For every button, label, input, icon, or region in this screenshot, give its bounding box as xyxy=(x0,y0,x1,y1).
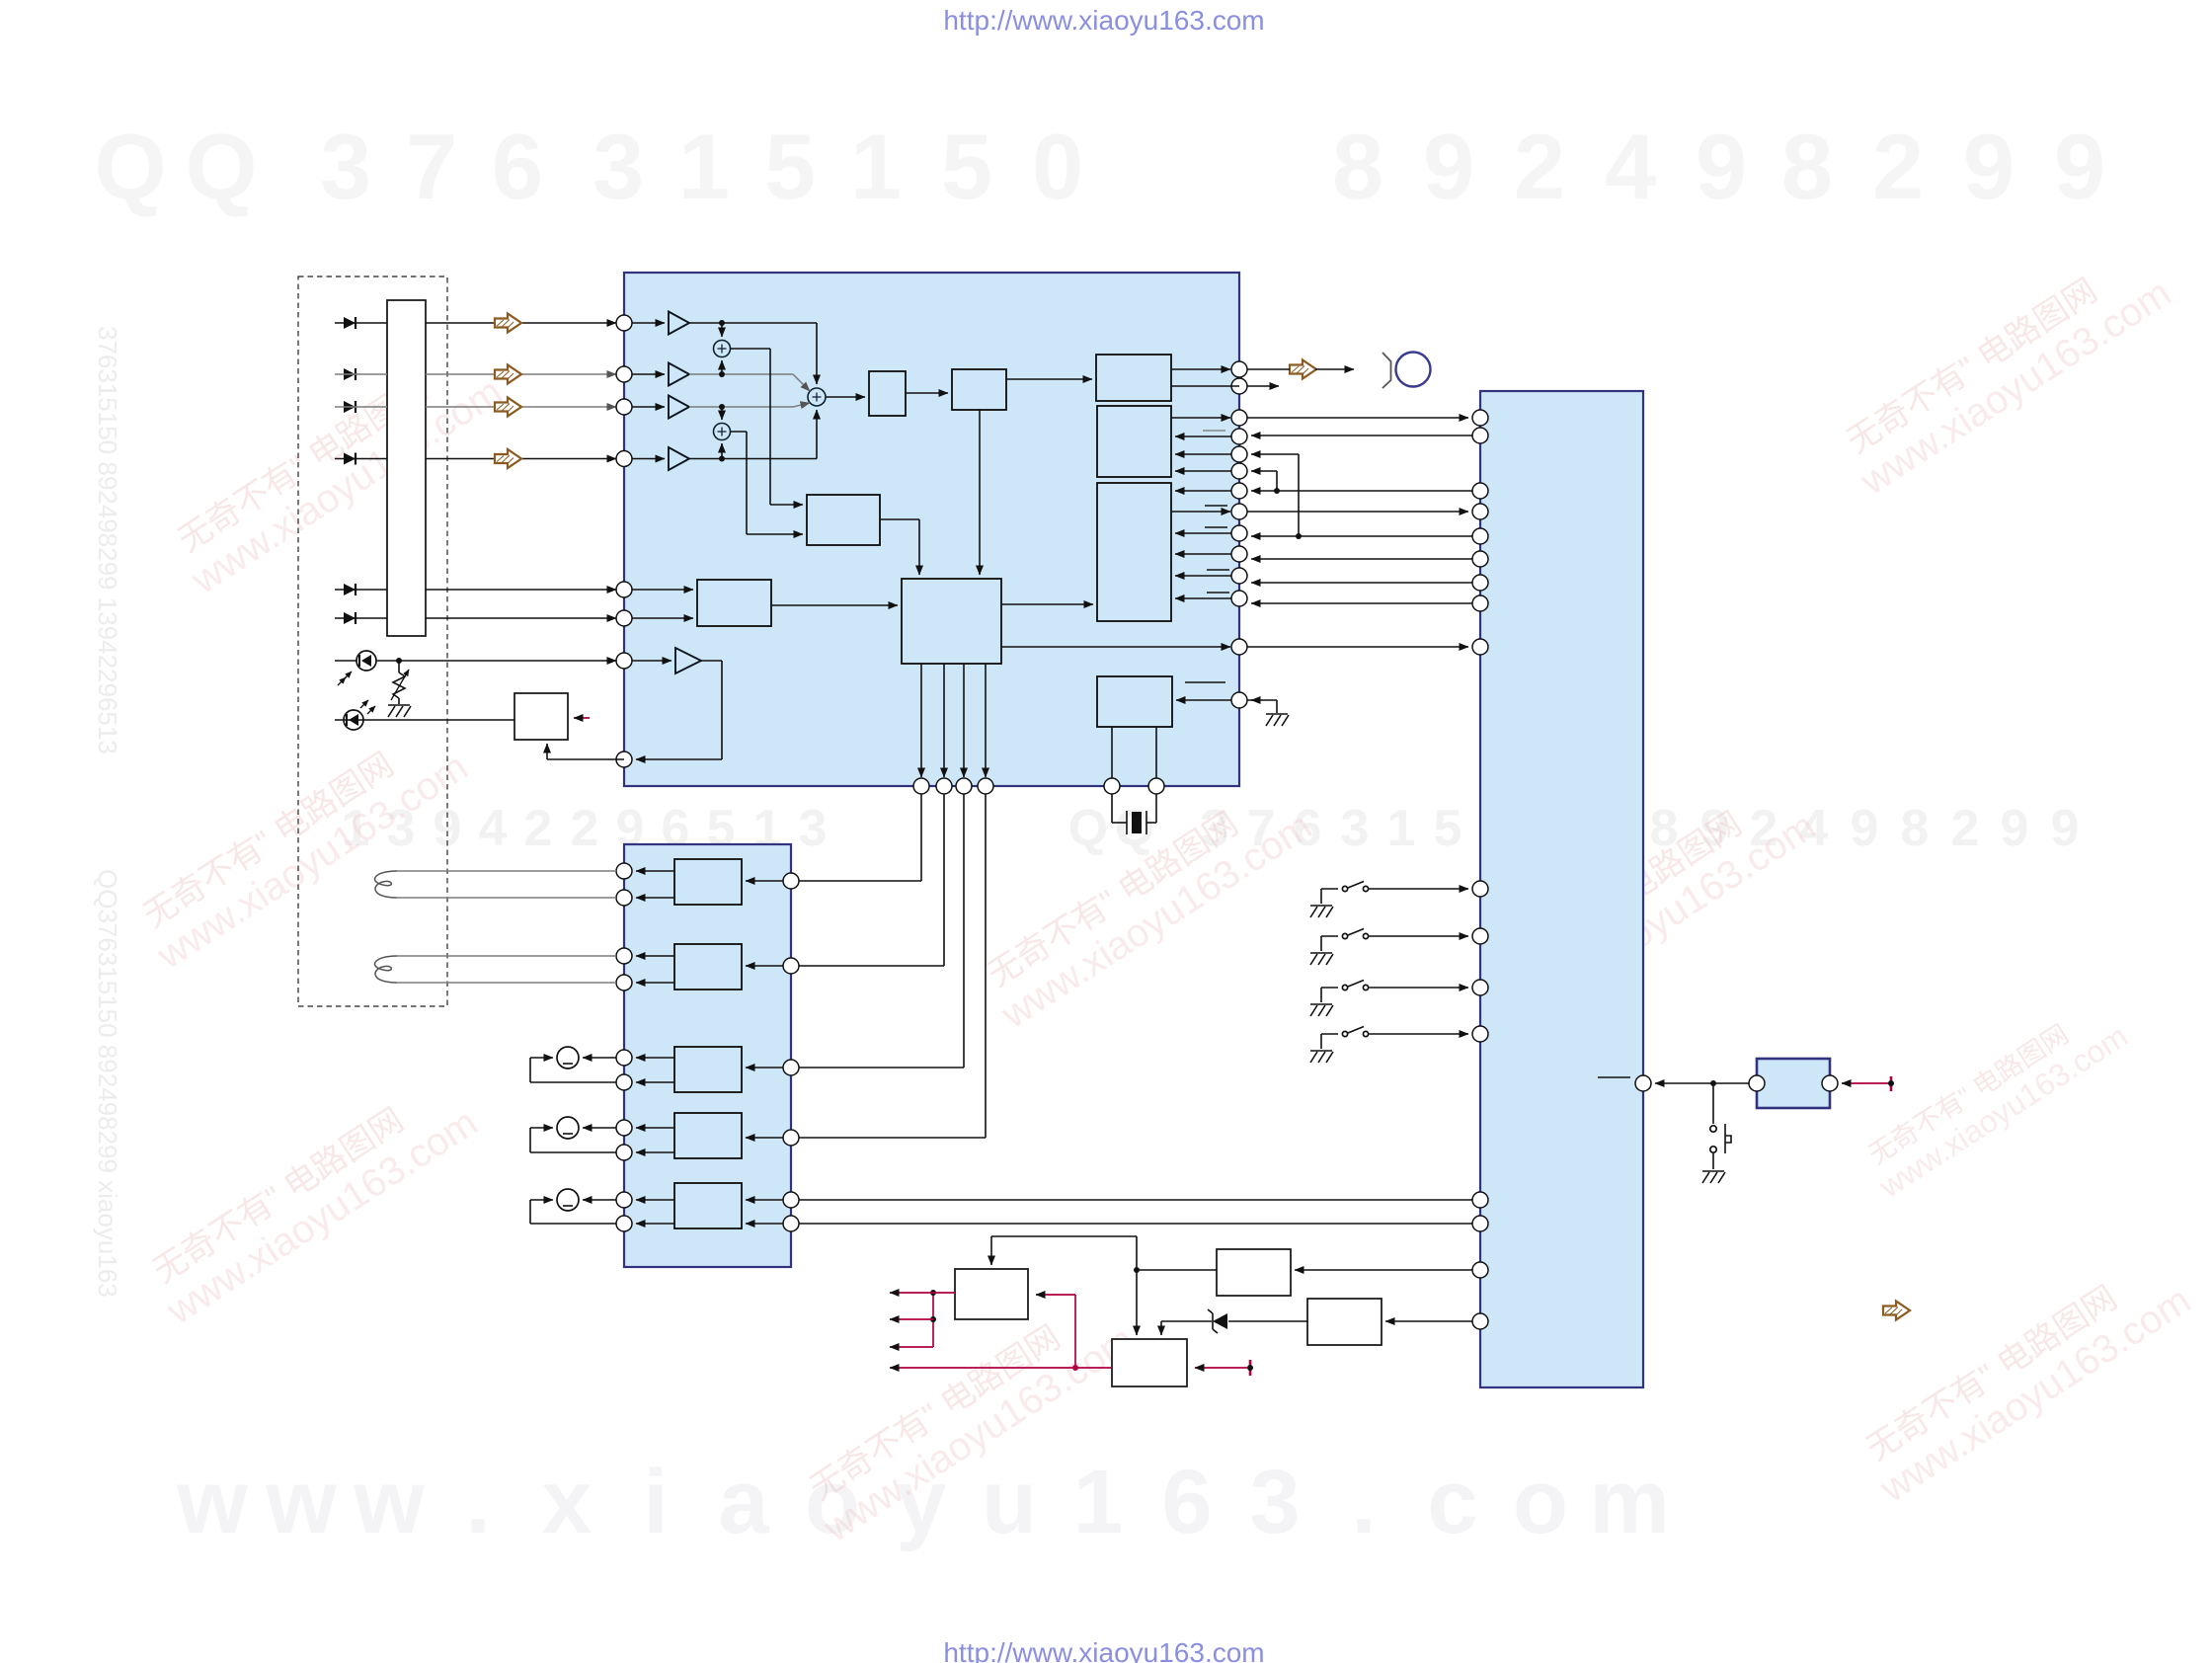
wire bus MCK xyxy=(1247,417,1468,419)
svg-text:5: 5 xyxy=(764,115,816,218)
watermark middle digits xyxy=(342,800,2080,857)
svg-text:9: 9 xyxy=(1851,800,1879,857)
ground SW2 xyxy=(1310,953,1333,965)
wire D4 to zener xyxy=(1228,1320,1307,1322)
U2 pin 4a xyxy=(616,1120,632,1136)
svg-text:QQ376315150 892498299 xiaoyu: QQ376315150 892498299 xiaoyu163 xyxy=(93,869,122,1298)
sled driver block xyxy=(674,1113,742,1158)
wire xtal gnd pin xyxy=(1247,700,1277,713)
photodiode PD-C xyxy=(344,401,355,413)
wire AGC to EQ xyxy=(906,392,948,394)
wire FOC drive net xyxy=(799,794,921,881)
wire branch to pin477 xyxy=(1251,471,1277,491)
U1 right pin y391 xyxy=(1231,378,1247,394)
U1 right pin y518 xyxy=(1231,504,1247,519)
ground SW3 xyxy=(1310,1004,1333,1016)
wire E1 out red xyxy=(1036,1295,1075,1368)
svg-text:Q: Q xyxy=(94,115,166,218)
U1 pin F xyxy=(616,610,632,626)
wire PD-F to U1 pin xyxy=(426,617,616,619)
IC U3 system controller body xyxy=(1480,391,1643,1387)
wire bus d543 xyxy=(1251,533,1472,539)
label overline XTAL xyxy=(1185,681,1225,683)
label overline RESET xyxy=(1598,1076,1630,1078)
U1 pin D xyxy=(616,451,632,467)
red stub arrow 3 xyxy=(890,1346,933,1348)
wire servo to C3 block xyxy=(1001,603,1093,605)
wire drv3 in xyxy=(746,1067,791,1069)
EF amp block xyxy=(697,580,771,626)
svg-text:5: 5 xyxy=(941,115,992,218)
label overline 4 xyxy=(1207,569,1229,571)
wire driver5 out a xyxy=(636,1199,674,1201)
sled motor M2 xyxy=(557,1117,579,1139)
watermark diagonal 8 xyxy=(1831,239,2178,505)
wire D1 to junction xyxy=(1134,1267,1217,1273)
wire osc leg 1 xyxy=(1111,727,1113,778)
U3 pin y655 xyxy=(1472,639,1488,655)
U3 pin y1286 xyxy=(1472,1262,1488,1278)
svg-text:a: a xyxy=(718,1452,769,1552)
C3 servo interface block xyxy=(1097,483,1171,621)
svg-text:Q: Q xyxy=(185,115,257,218)
B+ red feed to APC xyxy=(574,717,590,719)
U3 pin SW4 xyxy=(1472,1026,1488,1042)
svg-text:www.xiaoyu163.com: www.xiaoyu163.com xyxy=(1872,1018,2134,1206)
wire U3 to D1 xyxy=(1295,1269,1472,1271)
U2 pin 5b xyxy=(616,1216,632,1231)
DAC audio block xyxy=(1096,355,1171,401)
ground VR1 xyxy=(388,705,411,717)
wire D to S3 bottom xyxy=(816,410,818,459)
wire servo to pin FOK xyxy=(1001,646,1230,648)
spindle driver block xyxy=(674,1047,742,1092)
U1 right pin y477 xyxy=(1231,463,1247,479)
U1 right pin y374 xyxy=(1231,361,1247,377)
wire driver3 out b xyxy=(636,1081,674,1083)
svg-text:c: c xyxy=(1427,1452,1477,1552)
svg-text:6: 6 xyxy=(1161,1452,1212,1552)
wire monitor amp to APC pin xyxy=(636,661,722,759)
wire driver2 out b xyxy=(636,982,674,984)
variable resistor VR1 xyxy=(391,661,409,704)
wire pin to C3 in 4 xyxy=(1175,575,1231,577)
red stub arrow 1 xyxy=(890,1292,933,1294)
laser diode LD1 xyxy=(344,700,375,730)
U1 bottom pin drive 1 xyxy=(913,778,929,794)
D2 regulator block xyxy=(1112,1339,1187,1386)
oscillator block xyxy=(1097,676,1172,727)
ground SW4 xyxy=(1310,1051,1333,1063)
wire driver3 out a xyxy=(636,1057,674,1059)
junction amp A out xyxy=(689,320,817,326)
wire servo drive out 4 xyxy=(985,664,987,777)
connector CN1 flex rectangle xyxy=(387,300,426,636)
svg-text:w: w xyxy=(176,1452,248,1552)
wire PD-D to U1 pin xyxy=(426,458,616,460)
wire driver4 out b xyxy=(636,1151,674,1153)
watermark diagonal 4 xyxy=(972,772,1319,1038)
wire monitor PD to U1 xyxy=(335,660,616,662)
svg-text:3: 3 xyxy=(320,115,371,218)
watermark diagonal 6 xyxy=(1475,772,1823,1038)
label overline 5 xyxy=(1207,592,1229,594)
wire tracking coil a xyxy=(397,955,616,957)
wire sled upper xyxy=(583,1127,616,1129)
monitor amp xyxy=(632,648,701,673)
wire PD-A anode xyxy=(335,322,387,324)
svg-text:9: 9 xyxy=(1963,115,2014,218)
svg-text:9: 9 xyxy=(434,800,462,857)
svg-text:8: 8 xyxy=(1332,115,1383,218)
svg-text:9: 9 xyxy=(2001,800,2029,857)
crystal X1 xyxy=(1112,794,1156,834)
ground xtal pin xyxy=(1266,714,1289,726)
U1 right pin y561 xyxy=(1231,546,1247,562)
wire loading upper xyxy=(583,1199,616,1201)
switch SW1 xyxy=(1321,882,1468,905)
loading driver block xyxy=(674,1183,742,1228)
U1 pin C xyxy=(616,399,632,415)
svg-text:Q: Q xyxy=(1068,800,1108,857)
watermark left margin text xyxy=(93,326,122,1298)
svg-text:o: o xyxy=(1513,1452,1568,1552)
watermark diagonal 9 xyxy=(1856,992,2134,1206)
wire driver1 out b xyxy=(636,897,674,899)
photodiode PD-A xyxy=(344,317,355,329)
wire LD to APC box xyxy=(335,719,514,721)
wire junction up to E1 xyxy=(991,1236,1137,1270)
wire EF to servo xyxy=(771,604,898,606)
summer S2 xyxy=(714,407,731,459)
photodiode PD-E xyxy=(344,584,355,595)
U2 right pin 2 xyxy=(783,958,799,974)
photodiode PD-F xyxy=(344,612,355,624)
U2 pin 2b xyxy=(616,975,632,990)
wire spindle lower xyxy=(530,1058,616,1082)
D4 driver block xyxy=(1307,1299,1382,1345)
wire pin to C3 in 2 xyxy=(1175,532,1231,534)
wire pin to C3 in 1 xyxy=(1175,490,1231,492)
monitor photodiode PD-M xyxy=(338,651,376,685)
svg-text:0: 0 xyxy=(1032,115,1083,218)
wire PD-D anode xyxy=(335,458,387,460)
U1 right pin y655 xyxy=(1231,639,1247,655)
wire pin to C2 in 3 xyxy=(1175,470,1231,472)
wire TRK drive net xyxy=(799,794,944,966)
wire driver5 out b xyxy=(636,1223,674,1225)
wire branch to pin460 xyxy=(1251,454,1299,536)
wire bus FOK xyxy=(1247,646,1468,648)
watermark top digits xyxy=(94,115,2105,218)
U3 reset pin xyxy=(1635,1075,1651,1091)
U3 pin y1338 xyxy=(1472,1313,1488,1329)
svg-text:4: 4 xyxy=(479,800,508,857)
svg-text:1: 1 xyxy=(850,115,902,218)
svg-text:8: 8 xyxy=(1901,800,1930,857)
wire S3 to AGC xyxy=(826,396,865,398)
RF amp block xyxy=(807,495,880,545)
svg-text:.: . xyxy=(465,1452,491,1552)
svg-text:www.xiaoyu163.com: www.xiaoyu163.com xyxy=(1872,1278,2199,1511)
U3 pin y611 xyxy=(1472,595,1488,611)
svg-text:9: 9 xyxy=(2054,115,2105,218)
wire PD-F anode xyxy=(335,617,387,619)
U3 pin SW1 xyxy=(1472,881,1488,897)
U1 pin A xyxy=(616,315,632,331)
label overline 3 xyxy=(1205,526,1227,528)
svg-text:9: 9 xyxy=(2051,800,2080,857)
wire bus d611 xyxy=(1251,602,1472,604)
headphone jack bracket xyxy=(1382,353,1391,388)
wire servo drive out 1 xyxy=(920,664,922,777)
switch SW4 xyxy=(1321,1027,1468,1050)
U1 right pin y583 xyxy=(1231,568,1247,584)
wire EQ to DAC block xyxy=(1006,378,1092,380)
U2 right pin 1 xyxy=(783,873,799,889)
focus driver block xyxy=(674,859,742,905)
wire EQ down to servo xyxy=(979,410,981,575)
optical pickup dashed enclosure xyxy=(298,277,447,1006)
APC block xyxy=(514,693,568,740)
signal flow arrow C xyxy=(495,398,521,417)
wire bus d497 xyxy=(1251,488,1472,494)
wire reset net xyxy=(1655,1080,1753,1086)
svg-text:4: 4 xyxy=(1605,115,1656,218)
U1 pin E xyxy=(616,582,632,597)
spindle motor M1 xyxy=(557,1047,579,1069)
wire U2 to U3 row1239 xyxy=(799,1223,1472,1225)
svg-text:www.xiaoyu163.com: www.xiaoyu163.com xyxy=(993,804,1320,1037)
wire drv2 in xyxy=(746,965,791,967)
wire C3 out SENS xyxy=(1171,511,1230,513)
wire bus SENS xyxy=(1247,511,1468,513)
wire HP pin to jack xyxy=(1247,368,1354,370)
watermark giant bottom text xyxy=(176,1452,1670,1552)
svg-text:m: m xyxy=(1589,1452,1670,1552)
svg-text:u: u xyxy=(982,1452,1037,1552)
wire xtal pin to osc xyxy=(1176,699,1231,701)
U3 pin y1215 xyxy=(1472,1192,1488,1208)
wire spindle upper xyxy=(583,1057,616,1059)
wire osc leg 2 xyxy=(1155,727,1157,778)
wire bus d441 xyxy=(1251,435,1472,436)
reset IC body xyxy=(1757,1059,1830,1108)
U1 right pin y606 xyxy=(1231,591,1247,606)
red rail junctions xyxy=(930,1290,936,1347)
focus coil xyxy=(375,871,397,898)
wire PD-A to U1 pin xyxy=(426,322,616,324)
svg-text:i: i xyxy=(643,1452,669,1552)
photodiode PD-D xyxy=(344,453,355,465)
wire PD-B anode xyxy=(335,373,387,375)
wire drv5 in a xyxy=(746,1199,791,1201)
svg-text:6: 6 xyxy=(492,115,543,218)
svg-text:376315150 892498299 13942296: 376315150 892498299 13942296513 xyxy=(93,326,122,754)
svg-text:3: 3 xyxy=(1341,800,1370,857)
U2 right pin 5b xyxy=(783,1216,799,1231)
U3 pin SW2 xyxy=(1472,928,1488,944)
wire junction down to D2 xyxy=(1136,1270,1138,1335)
U2 pin 1b xyxy=(616,890,632,906)
signal flow arrow bottom right xyxy=(1883,1302,1910,1320)
watermark diagonal 7 xyxy=(1851,1246,2198,1512)
red B+ to reset IC xyxy=(1842,1076,1894,1091)
junction monitor node xyxy=(396,658,402,664)
wire drv5 in b xyxy=(746,1223,791,1225)
svg-text:2: 2 xyxy=(571,800,599,857)
label overline 1 xyxy=(1203,430,1225,432)
wire drv4 in xyxy=(746,1137,791,1139)
wire sled lower xyxy=(530,1128,616,1152)
svg-text:2: 2 xyxy=(1872,115,1924,218)
U2 pin 3b xyxy=(616,1074,632,1090)
wire APC feedback from U1 pin xyxy=(547,744,624,759)
wire drv1 in xyxy=(746,880,791,882)
wire pin to C2 in 2 xyxy=(1175,453,1231,455)
watermark diagonal 3 xyxy=(137,1069,485,1334)
U1 bottom pin drive 3 xyxy=(956,778,972,794)
svg-text:http://www.xiaoyu163.com: http://www.xiaoyu163.com xyxy=(943,1637,1264,1663)
wire F to EF block xyxy=(632,617,693,619)
signal flow arrow B xyxy=(495,365,521,384)
wire focus coil a xyxy=(397,870,616,872)
U2 pin 3a xyxy=(616,1050,632,1066)
U3 pin y497 xyxy=(1472,483,1488,499)
tracking driver block xyxy=(674,944,742,990)
U3 pin y423 xyxy=(1472,410,1488,426)
tracking coil xyxy=(375,956,397,983)
svg-text:7: 7 xyxy=(406,115,457,218)
U3 pin y1239 xyxy=(1472,1216,1488,1231)
watermark diagonal 1 xyxy=(162,338,510,603)
AGC block xyxy=(869,371,906,416)
wire U2 to U3 row1215 xyxy=(799,1199,1472,1201)
wire S1 to RF block xyxy=(731,349,804,505)
U1 pin B xyxy=(616,366,632,382)
svg-text:.: . xyxy=(1351,1452,1377,1552)
wire pin to C2 in 1 xyxy=(1175,436,1231,437)
switch SW3 xyxy=(1321,981,1468,1003)
svg-text:8: 8 xyxy=(1781,115,1833,218)
wire S2 to RF block xyxy=(731,432,804,534)
svg-text:x: x xyxy=(541,1452,592,1552)
wire C diagonal to S3 xyxy=(793,403,810,407)
junction amp B out xyxy=(689,371,793,377)
wire DAC aux out xyxy=(1171,385,1239,387)
wire RF out down to servo xyxy=(880,519,919,575)
U1 right pin y423 xyxy=(1231,410,1247,426)
U1 pin APC out xyxy=(616,752,632,767)
U3 pin SW3 xyxy=(1472,980,1488,995)
U2 pin 4b xyxy=(616,1145,632,1160)
U2 pin 1a xyxy=(616,863,632,879)
amplifier D xyxy=(632,447,689,470)
svg-text:2: 2 xyxy=(1951,800,1980,857)
U3 pin y441 xyxy=(1472,428,1488,443)
signal flow arrow D xyxy=(495,449,521,468)
wire DAC to HP pin xyxy=(1171,368,1230,370)
wire bus d566 xyxy=(1251,558,1472,560)
U1 right pin y540 xyxy=(1231,525,1247,541)
switch SW2 xyxy=(1321,929,1468,952)
svg-text:1: 1 xyxy=(678,115,730,218)
U2 right pin 4 xyxy=(783,1130,799,1146)
red stub arrow 2 xyxy=(890,1318,933,1320)
push switch SW-RES xyxy=(1710,1083,1731,1169)
wire driver1 out a xyxy=(636,870,674,872)
zener diode ZD1 xyxy=(1208,1309,1227,1333)
svg-text:3: 3 xyxy=(1249,1452,1300,1552)
wire PD-E to U1 pin xyxy=(426,589,616,591)
photodiode PD-B xyxy=(344,368,355,380)
wire pin to C3 in 5 xyxy=(1175,597,1231,599)
red feed E1 xyxy=(933,1292,955,1294)
ground SW1 xyxy=(1310,906,1333,917)
U1 right pin y460 xyxy=(1231,446,1247,462)
wire U3 to D4 xyxy=(1385,1320,1472,1322)
U3 pin y566 xyxy=(1472,551,1488,567)
label overline 2 xyxy=(1205,505,1227,507)
svg-text:3: 3 xyxy=(799,800,828,857)
red rail long xyxy=(890,1365,1112,1371)
junction amp D out xyxy=(689,456,817,462)
U1 bottom pin drive 4 xyxy=(978,778,993,794)
D1 power control block xyxy=(1217,1249,1291,1296)
svg-text:http://www.xiaoyu163.com: http://www.xiaoyu163.com xyxy=(943,5,1264,36)
wire focus coil b xyxy=(397,897,616,899)
wire servo drive out 3 xyxy=(963,664,965,777)
wire PD-B to U1 pin xyxy=(426,373,616,375)
amplifier C xyxy=(632,396,689,419)
wire loading lower xyxy=(530,1200,616,1224)
wire servo drive out 2 xyxy=(943,664,945,777)
svg-text:1: 1 xyxy=(1387,800,1416,857)
wire pin to C3 in 3 xyxy=(1175,553,1231,555)
reset IC pin right xyxy=(1822,1075,1838,1091)
U3 pin y518 xyxy=(1472,504,1488,519)
svg-text:w: w xyxy=(265,1452,337,1552)
wire A to S3 top xyxy=(816,323,818,384)
wire SPN drive net xyxy=(799,794,964,1068)
U2 right pin 5a xyxy=(783,1192,799,1208)
svg-text:2: 2 xyxy=(524,800,553,857)
signal flow arrow HP xyxy=(1290,360,1316,379)
wire SLD drive net xyxy=(799,794,986,1138)
U1 bottom pin X2 xyxy=(1148,778,1164,794)
wire C2 out MCK xyxy=(1171,417,1230,419)
U1 bottom pin X1 xyxy=(1104,778,1120,794)
headphone jack circle xyxy=(1396,353,1431,387)
IC U2 driver body xyxy=(624,844,791,1267)
wire PD-E anode xyxy=(335,589,387,591)
watermark diagonal 5 xyxy=(794,1286,1142,1551)
signal flow arrow A xyxy=(495,314,521,333)
svg-text:w: w xyxy=(353,1452,425,1552)
junction amp C out xyxy=(689,404,793,410)
U2 pin 5a xyxy=(616,1192,632,1208)
svg-text:www.xiaoyu163.com: www.xiaoyu163.com xyxy=(159,1100,486,1333)
wire driver2 out a xyxy=(636,955,674,957)
U3 pin y543 xyxy=(1472,528,1488,544)
U1 right pin y709 xyxy=(1231,692,1247,708)
red B+ to D2 xyxy=(1195,1360,1253,1376)
svg-text:9: 9 xyxy=(1423,115,1474,218)
amplifier B xyxy=(632,363,689,386)
reset IC pin left xyxy=(1749,1075,1765,1091)
U1 right pin y497 xyxy=(1231,483,1247,499)
U3 pin y590 xyxy=(1472,575,1488,591)
